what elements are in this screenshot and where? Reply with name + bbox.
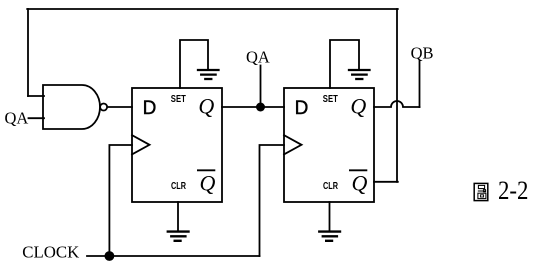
wire: U3 SET pin to ground [330,40,359,88]
svg-text:CLR: CLR [171,181,187,192]
svg-text:SET: SET [323,94,338,105]
U3 clock edge triangle [284,135,302,154]
ground: U2 CLR [168,232,189,241]
svg-text:D: D [295,98,309,119]
flip-flop U2 box [132,88,222,202]
svg-text:CLR: CLR [323,181,339,192]
svg-text:Q: Q [350,93,366,118]
wire: U2 SET pin to ground [180,40,208,88]
wire: left feedback vertical down to NAND top input [27,9,29,96]
node: QA junction dot [256,103,265,112]
wire: U3 Q output with hop over feedback, to QB [374,101,420,107]
svg-text:Q: Q [200,171,216,196]
wire: CLOCK riser to U2 clock pin [109,145,132,256]
svg-text:QA: QA [246,48,270,67]
U2 clock edge triangle [132,135,150,154]
wire: U3 CLR pin to ground [329,202,331,231]
wire: QA input to NAND bottom input [29,117,45,119]
svg-text:Q: Q [198,93,214,118]
wire: U2 Q output to U3 D input [222,106,284,108]
ground: U2 SET [198,70,219,79]
wire: CLOCK bus [87,255,260,257]
wire: right feedback vertical (from top line down to Q-bar B) [396,9,398,182]
wire: QB riser [419,61,421,107]
svg-text:QB: QB [411,44,434,63]
wire: QA node stub down from label [260,66,262,108]
svg-text:QA: QA [5,108,29,127]
flip-flop U3 box [284,88,374,202]
wire: NAND top input stub [28,95,44,97]
svg-text:D: D [143,98,157,119]
svg-text:CLOCK: CLOCK [22,242,80,261]
node: CLOCK junction dot [105,251,115,261]
wire: NAND output to FF1 D input [107,106,132,108]
ground: U3 SET [349,70,370,79]
U3 pin label Q-bar [349,170,368,195]
wire: CLOCK riser to U3 clock pin [260,145,285,256]
wire: U2 CLR pin to ground [177,202,179,231]
wire: top feedback horizontal (Q-bar B to NAND input) [27,8,398,10]
svg-text:SET: SET [171,94,186,105]
caption: 圖 (figure) glyph drawn as strokes [474,183,488,200]
svg-text:2-2: 2-2 [498,176,529,205]
wire: U3 Q-bar output to feedback vertical [374,181,398,183]
nand gate U1 [43,85,107,129]
svg-text:Q: Q [352,171,368,196]
U2 pin label Q-bar [197,170,216,195]
ground: U3 CLR [319,232,340,241]
